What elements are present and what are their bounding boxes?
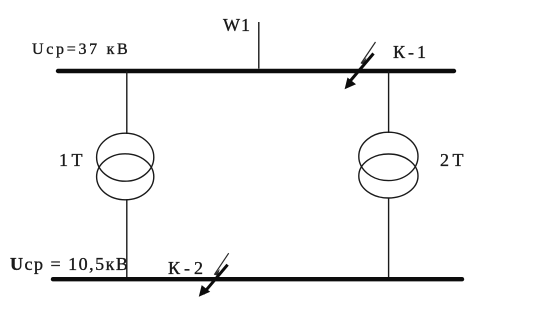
label Ucp=37 kV	[32, 41, 130, 59]
transformer 2T secondary winding	[359, 154, 418, 198]
bus B1 (37 kV busbar)	[58, 69, 454, 73]
transformer 1T primary winding	[97, 133, 154, 181]
wire top bus to transformer 2T	[388, 71, 390, 133]
wire W1 feeder drop	[258, 22, 260, 69]
wire transformer 1T to bottom bus	[126, 200, 128, 278]
transformer 1T secondary winding	[97, 154, 154, 200]
fault symbol K-1 (lightning arrow through top bus)	[345, 42, 376, 89]
transformer 2T primary winding	[359, 132, 418, 180]
label Ucp = 10,5 kV	[10, 254, 129, 275]
wire top bus to transformer 1T	[126, 71, 128, 134]
label K-2	[168, 258, 207, 279]
label 1T	[59, 150, 86, 171]
label W1	[223, 15, 251, 36]
wire transformer 2T to bottom bus	[388, 198, 390, 278]
fault symbol K-2 (lightning arrow through bottom bus)	[199, 253, 229, 297]
label 2T	[440, 150, 467, 171]
bus B2 (10.5 kV busbar)	[53, 277, 462, 281]
label K-1	[393, 42, 429, 63]
